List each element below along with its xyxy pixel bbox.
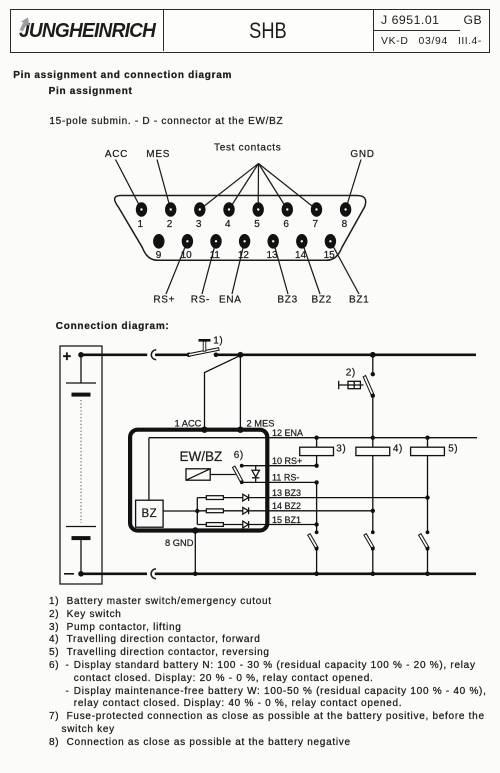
diode D-BZ3 (243, 494, 249, 501)
header divider SHB/right (373, 9, 374, 51)
diode D-BZ2 (243, 507, 249, 514)
logo arrow (0, 0, 40, 40)
node RS+ end (314, 464, 318, 468)
wire 11 RS- (242, 481, 317, 483)
battery dotted link (80, 400, 82, 523)
pins top row 1-8 (136, 202, 351, 217)
header outer box (10, 9, 490, 53)
svg-text:11: 11 (210, 250, 221, 261)
wire RS- down to aux switch 3 (316, 482, 318, 532)
node ENA coil3 (314, 436, 318, 440)
wire 14 BZ2 (197, 510, 372, 512)
svg-text:GND: GND (350, 149, 374, 160)
svg-text:MES: MES (146, 149, 170, 160)
leader pin 12 to ENA (232, 241, 245, 294)
leader pin 14 to BZ2 (302, 241, 320, 294)
header right cell texts (381, 13, 440, 27)
contactor coil 4) (356, 447, 390, 455)
node ENA coil5 (425, 436, 429, 440)
svg-text:1): 1) (213, 335, 223, 346)
EW/BZ unit box (130, 430, 267, 531)
svg-text:ACC: ACC (105, 149, 128, 160)
svg-text:7: 7 (313, 219, 319, 230)
svg-text:12 ENA: 12 ENA (272, 428, 303, 438)
battery cell 2 plate (66, 526, 96, 528)
svg-text:+: + (63, 348, 72, 365)
svg-text:1: 1 (138, 219, 144, 230)
node GND rail (193, 572, 198, 577)
wire BZ output (163, 510, 197, 512)
wire 10 RS+ (242, 465, 317, 467)
svg-text:BZ2: BZ2 (312, 295, 332, 306)
svg-text:15: 15 (324, 250, 336, 261)
leader pin 13 to BZ3 (273, 241, 288, 294)
relay contact bottom node (240, 480, 244, 484)
wire GND to bottom rail (194, 531, 196, 574)
svg-text:12: 12 (238, 250, 250, 261)
leader fan test contacts to pins 3-7 (200, 164, 317, 210)
connector pair symbol bottom (8) (151, 569, 156, 579)
aux contact of contactor 4 (364, 530, 375, 573)
battery cell 1 plate (66, 382, 96, 384)
svg-text:Test contacts: Test contacts (214, 142, 281, 153)
battery minus sign (64, 573, 74, 575)
pin numbers 9-15 (156, 250, 335, 261)
node BZ3 tap (425, 495, 429, 499)
pin numbers 1-8 (138, 219, 348, 230)
switch 1) contact left (187, 353, 192, 358)
switch 1) blade (188, 348, 219, 357)
battery cell 1 bar (72, 393, 91, 397)
wire key switch to ENA line (372, 396, 374, 438)
svg-text:BZ3: BZ3 (277, 295, 297, 306)
relay link (210, 474, 235, 476)
SHB title (181, 18, 355, 44)
switch 1) contact right (214, 353, 219, 358)
wire top rail mid (155, 353, 189, 356)
svg-text:2 MES: 2 MES (247, 419, 275, 429)
svg-text:15 BZ1: 15 BZ1 (272, 515, 301, 525)
svg-text:EW/BZ: EW/BZ (180, 449, 223, 464)
svg-text:ENA: ENA (219, 295, 242, 306)
svg-text:5: 5 (254, 219, 260, 230)
switch 1) actuator bar (199, 339, 211, 342)
switch 2) contact top (371, 372, 375, 376)
switch 2) key actuator (339, 381, 364, 389)
battery cell 2 bar (72, 536, 91, 540)
node 8 GND (192, 527, 198, 533)
svg-text:4): 4) (393, 444, 403, 455)
svg-text:BZ: BZ (142, 508, 158, 520)
resistor R-BZ1 (206, 523, 223, 527)
svg-text:2: 2 (167, 219, 173, 230)
relay contact top node (240, 464, 244, 468)
resistor R-BZ2 (206, 509, 223, 513)
node key switch tap (370, 352, 376, 358)
wire BZ branch vertical (196, 498, 198, 525)
legend (49, 596, 59, 609)
svg-text:2): 2) (346, 367, 356, 378)
leader MES to pin 2 (157, 160, 171, 210)
connector shell (115, 196, 366, 261)
wire to 2 MES (239, 355, 241, 430)
leader ACC to pin 1 (116, 160, 142, 210)
svg-text:10: 10 (181, 250, 193, 261)
pins bottom row 9-15 (153, 234, 336, 249)
svg-text:3: 3 (196, 219, 202, 230)
svg-text:9: 9 (156, 250, 162, 261)
node battery positive (78, 352, 84, 358)
switch 2) contact bottom (371, 394, 375, 398)
svg-text:1 ACC: 1 ACC (175, 419, 202, 429)
contactor coil 5) (411, 447, 445, 455)
wire top rail right (216, 353, 476, 356)
leader pin 15 to BZ1 (330, 241, 359, 294)
svg-text:6): 6) (234, 450, 244, 461)
node rail aux5 (425, 572, 430, 577)
svg-text:13: 13 (266, 250, 278, 261)
switch 1) actuator stem (203, 341, 206, 351)
connector pair symbol top (7) (151, 350, 156, 360)
aux contact of contactor 3 (308, 530, 319, 573)
svg-text:5): 5) (448, 444, 458, 455)
wire rail to key switch (372, 355, 374, 373)
wire bottom rail right (155, 572, 476, 575)
wire 15 BZ1 (197, 524, 316, 526)
svg-text:BZ1: BZ1 (349, 295, 369, 306)
resistor R-BZ3 (206, 496, 223, 500)
contactor coil 3) (300, 447, 334, 455)
battery internal wires (80, 355, 82, 574)
leader pin 10 to RS+ (166, 241, 187, 294)
node ENA coil4 (371, 436, 375, 440)
headings (13, 70, 232, 83)
node BZ branch (195, 509, 199, 513)
white contact dots on pins (140, 208, 346, 242)
node 1 ACC (201, 427, 207, 433)
leader GND to pin 8 (346, 160, 361, 210)
svg-text:13 BZ3: 13 BZ3 (272, 488, 301, 498)
wire 12 ENA (149, 437, 477, 439)
svg-text:14 BZ2: 14 BZ2 (272, 501, 301, 511)
node RS- start (314, 480, 318, 484)
svg-text:4: 4 (225, 219, 231, 230)
switch 2) blade (363, 376, 374, 396)
BZ block (136, 500, 164, 527)
diode D-BZ1 (243, 521, 249, 528)
wire bottom rail left (81, 572, 147, 575)
node BZ2 tap (371, 509, 375, 513)
heading connection diagram (56, 321, 170, 334)
battery outline (60, 346, 102, 584)
wire coil4 branch (372, 438, 374, 532)
node main junction (238, 352, 244, 358)
wire coil3 branch (316, 438, 318, 466)
relay coil (186, 469, 210, 480)
svg-text:RS+: RS+ (153, 295, 175, 306)
node rail aux4 (371, 572, 376, 577)
node battery negative (78, 571, 84, 577)
svg-text:10 RS+: 10 RS+ (272, 456, 302, 466)
svg-text:8: 8 (342, 219, 348, 230)
node 2 MES (237, 427, 243, 433)
svg-text:3): 3) (336, 444, 346, 455)
svg-text:11 RS-: 11 RS- (272, 472, 299, 482)
svg-text:8 GND: 8 GND (165, 538, 194, 548)
wire coil5 branch (427, 438, 429, 532)
leader pin 11 to RS- (202, 241, 216, 294)
wire top rail left (81, 353, 147, 356)
header divider logo/SHB (163, 9, 164, 51)
relay contact 6) blade (233, 466, 243, 482)
diode D1 (252, 466, 260, 483)
wire to 1 ACC (205, 355, 241, 429)
header right cell mid divider (373, 30, 460, 31)
node rail aux3 (314, 572, 319, 577)
aux contact of contactor 5 (419, 530, 430, 573)
node BZ1 tap (314, 522, 318, 526)
svg-text:RS-: RS- (191, 295, 210, 306)
wire internal ENA to BZ (148, 438, 150, 501)
Jungheinrich logo (19, 19, 155, 43)
svg-text:6: 6 (283, 219, 289, 230)
svg-text:14: 14 (295, 250, 307, 261)
wire 13 BZ3 (197, 497, 427, 499)
